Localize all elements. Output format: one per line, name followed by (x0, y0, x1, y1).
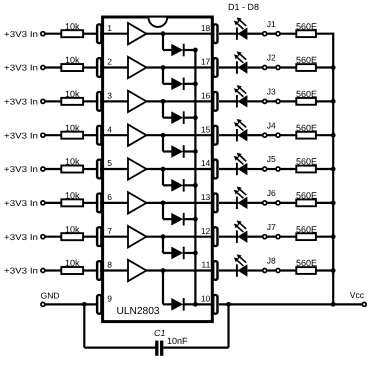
diode internal freewheel (channel 8) (171, 298, 183, 311)
junction (C1 branch) (226, 302, 231, 307)
resistor 10k (channel 5) (61, 166, 83, 173)
diode internal freewheel (channel 6) (171, 213, 183, 226)
capacitor C1 (157, 341, 162, 356)
svg-text:560E: 560E (296, 258, 317, 268)
pin 10 (COM) (212, 294, 219, 315)
junction (COM rail) (193, 251, 198, 256)
junction (Vcc rail meets Vcc net) (331, 302, 336, 307)
buffer/darlington triangle (channel 5) (128, 158, 146, 179)
pin 11 (output) (212, 260, 219, 281)
buffer/darlington triangle (channel 7) (128, 226, 146, 247)
wire (45, 303, 97, 305)
wire (163, 49, 172, 51)
wire (219, 236, 239, 238)
junction (channel 5 output) (161, 167, 166, 172)
svg-text:560E: 560E (296, 21, 317, 31)
wire (316, 269, 334, 271)
wire (219, 33, 239, 35)
svg-text:J4: J4 (267, 120, 276, 130)
junction (COM rail) (193, 149, 198, 154)
pin 16 (output) (212, 91, 219, 112)
wire (316, 168, 334, 170)
wire (163, 218, 172, 220)
pin 5 (input) (96, 159, 103, 180)
pin 6 (input) (96, 192, 103, 213)
wire (280, 269, 296, 271)
wire (162, 271, 164, 305)
wire (247, 66, 262, 68)
wire (184, 83, 196, 85)
wire (83, 168, 96, 170)
resistor 560E (channel 6) (296, 199, 316, 206)
junction (Vcc rail) (331, 133, 336, 138)
junction (COM rail) (193, 81, 198, 86)
junction (COM rail) (193, 302, 198, 307)
wire (184, 49, 196, 51)
resistor 560E (channel 4) (296, 132, 316, 139)
pin 7 (input) (96, 226, 103, 247)
jumper J6 (263, 201, 280, 205)
junction (Vcc rail) (331, 65, 336, 70)
junction (channel 8 output) (161, 268, 166, 273)
wire (280, 33, 296, 35)
svg-text:+3V3 In: +3V3 In (4, 29, 38, 39)
wire (100, 134, 128, 136)
jumper J8 (263, 269, 280, 273)
wire (83, 100, 96, 102)
pin 15 (output) (212, 125, 219, 146)
wire internal COM rail (diode cathodes to pin 10) (194, 50, 196, 304)
wire (145, 168, 212, 170)
wire (163, 117, 172, 119)
pin 1 (input) (96, 23, 103, 44)
wire (219, 66, 239, 68)
wire (184, 303, 196, 305)
wire (100, 100, 128, 102)
terminal +3V3 In (channel 2) (41, 66, 45, 70)
resistor 10k (channel 1) (61, 30, 83, 37)
terminal +3V3 In (channel 8) (41, 269, 45, 273)
wire (316, 236, 334, 238)
svg-text:J5: J5 (267, 154, 276, 164)
wire (184, 184, 196, 186)
wire (100, 202, 128, 204)
IC U1 ULN2803 body (18-pin DIP outline with notch) (103, 17, 213, 322)
svg-text:J6: J6 (267, 188, 276, 198)
wire (162, 101, 164, 117)
svg-text:+3V3 In: +3V3 In (4, 164, 38, 174)
wire (145, 66, 212, 68)
resistor 560E (channel 7) (296, 233, 316, 240)
wire (83, 66, 96, 68)
svg-text:18: 18 (201, 23, 211, 33)
wire (219, 202, 239, 204)
terminal Vcc (362, 302, 366, 306)
terminal +3V3 In (channel 4) (41, 133, 45, 137)
wire (100, 236, 128, 238)
svg-text:10nF: 10nF (167, 336, 188, 346)
wire (184, 252, 196, 254)
svg-text:J8: J8 (267, 256, 276, 266)
junction (channel 7 output) (161, 234, 166, 239)
resistor 560E (channel 5) (296, 166, 316, 173)
resistor 560E (channel 1) (296, 30, 316, 37)
wire (145, 100, 212, 102)
LED D3 (234, 85, 248, 108)
wire (163, 252, 172, 254)
wire (162, 68, 164, 84)
junction (Vcc rail) (331, 167, 336, 172)
jumper J4 (263, 133, 280, 137)
junction (Vcc rail) (331, 99, 336, 104)
wire (145, 33, 212, 35)
svg-text:560E: 560E (296, 55, 317, 65)
wire (162, 203, 164, 219)
svg-text:1: 1 (107, 23, 112, 33)
pin 9 (GND) (96, 294, 103, 315)
svg-text:D1 - D8: D1 - D8 (228, 2, 259, 12)
wire (280, 100, 296, 102)
wire (184, 150, 196, 152)
diode internal freewheel (channel 7) (171, 247, 183, 260)
wire (100, 168, 128, 170)
svg-text:14: 14 (201, 158, 211, 168)
wire (45, 269, 61, 271)
junction (COM rail) (193, 48, 198, 53)
buffer/darlington triangle (channel 2) (128, 57, 146, 78)
wire (100, 269, 128, 271)
diode internal freewheel (channel 4) (171, 145, 183, 158)
svg-text:J2: J2 (267, 53, 276, 63)
wire (280, 202, 296, 204)
wire (45, 202, 61, 204)
wire (184, 218, 196, 220)
wire (83, 236, 96, 238)
wire (100, 33, 128, 35)
wire (162, 237, 164, 253)
junction (channel 4 output) (161, 133, 166, 138)
svg-text:560E: 560E (296, 224, 317, 234)
wire (247, 168, 262, 170)
wire (83, 202, 96, 204)
wire (83, 304, 85, 347)
svg-text:7: 7 (107, 226, 112, 236)
wire (219, 100, 239, 102)
svg-text:+3V3 In: +3V3 In (4, 198, 38, 208)
junction (Vcc rail) (331, 200, 336, 205)
resistor 10k (channel 6) (61, 199, 83, 206)
wire (280, 66, 296, 68)
wire (162, 169, 164, 185)
svg-text:10k: 10k (65, 224, 80, 234)
junction (Vcc rail) (331, 268, 336, 273)
pin 2 (input) (96, 57, 103, 78)
resistor 10k (channel 8) (61, 267, 83, 274)
wire (184, 117, 196, 119)
diode internal freewheel (channel 3) (171, 111, 183, 124)
svg-text:17: 17 (201, 57, 211, 67)
jumper J5 (263, 167, 280, 171)
svg-text:13: 13 (201, 192, 211, 202)
LED D8 (234, 254, 248, 276)
pin 17 (output) (212, 57, 219, 78)
pin 12 (output) (212, 226, 219, 247)
diode internal freewheel (channel 1) (171, 44, 183, 57)
wire (163, 303, 172, 305)
buffer/darlington triangle (channel 4) (128, 124, 146, 145)
svg-text:560E: 560E (296, 123, 317, 133)
resistor 560E (channel 2) (296, 64, 316, 71)
wire Vcc rail (right) (332, 33, 334, 305)
wire (84, 347, 155, 349)
pin 4 (input) (96, 125, 103, 146)
wire (145, 134, 212, 136)
svg-text:10k: 10k (65, 123, 80, 133)
svg-text:560E: 560E (296, 89, 317, 99)
wire (83, 134, 96, 136)
svg-text:+3V3 In: +3V3 In (4, 63, 38, 73)
resistor 10k (channel 7) (61, 233, 83, 240)
wire (316, 202, 334, 204)
wire (162, 34, 164, 50)
wire (280, 236, 296, 238)
svg-text:10k: 10k (65, 191, 80, 201)
wire (219, 134, 239, 136)
svg-text:+3V3 In: +3V3 In (4, 97, 38, 107)
wire (247, 33, 262, 35)
wire (100, 66, 128, 68)
wire (316, 33, 334, 35)
svg-text:560E: 560E (296, 157, 317, 167)
wire (45, 66, 61, 68)
pin 13 (output) (212, 192, 219, 213)
wire (163, 150, 172, 152)
wire (45, 134, 61, 136)
pin 14 (output) (212, 159, 219, 180)
wire COM rail to pin 10 (194, 303, 212, 305)
pin 18 (output) (212, 23, 219, 44)
wire (145, 202, 212, 204)
diode internal freewheel (channel 5) (171, 179, 183, 192)
wire (45, 100, 61, 102)
pin 3 (input) (96, 91, 103, 112)
wire (316, 100, 334, 102)
svg-text:3: 3 (107, 91, 112, 101)
resistor 10k (channel 3) (61, 98, 83, 105)
wire (219, 168, 239, 170)
svg-text:2: 2 (107, 57, 112, 67)
svg-text:560E: 560E (296, 191, 317, 201)
svg-text:6: 6 (107, 192, 112, 202)
svg-text:+3V3 In: +3V3 In (4, 232, 38, 242)
junction (Vcc rail) (331, 234, 336, 239)
svg-text:4: 4 (107, 124, 112, 134)
svg-text:J3: J3 (267, 87, 276, 97)
junction (COM rail) (193, 217, 198, 222)
wire (163, 184, 172, 186)
wire (162, 135, 164, 151)
svg-text:12: 12 (201, 226, 211, 236)
junction (channel 2 output) (161, 65, 166, 70)
jumper J3 (263, 99, 280, 103)
svg-text:+3V3 In: +3V3 In (4, 130, 38, 140)
junction (channel 1 output) (161, 31, 166, 36)
resistor 10k (channel 4) (61, 132, 83, 139)
svg-text:10k: 10k (65, 258, 80, 268)
wire (247, 236, 262, 238)
wire (145, 269, 212, 271)
wire (83, 33, 96, 35)
svg-text:10k: 10k (65, 89, 80, 99)
LED D7 (234, 220, 248, 243)
buffer/darlington triangle (channel 6) (128, 192, 146, 213)
jumper J2 (263, 66, 280, 70)
svg-text:9: 9 (107, 294, 112, 304)
svg-text:+3V3 In: +3V3 In (4, 266, 38, 276)
junction (channel 3 output) (161, 99, 166, 104)
wire (45, 168, 61, 170)
LED D6 (234, 187, 248, 210)
jumper J7 (263, 235, 280, 239)
LED D2 (234, 51, 248, 74)
svg-text:10k: 10k (65, 21, 80, 31)
svg-text:C1: C1 (154, 328, 166, 338)
LED D4 (234, 119, 248, 142)
junction (channel 6 output) (161, 200, 166, 205)
terminal +3V3 In (channel 5) (41, 167, 45, 171)
svg-text:J1: J1 (267, 19, 276, 29)
wire (280, 168, 296, 170)
buffer/darlington triangle (channel 1) (128, 23, 146, 44)
jumper J1 (263, 32, 280, 36)
wire (316, 134, 334, 136)
buffer/darlington triangle (channel 8) (128, 260, 146, 281)
terminal GND (41, 302, 45, 306)
svg-text:10k: 10k (65, 55, 80, 65)
terminal +3V3 In (channel 1) (41, 32, 45, 36)
svg-text:15: 15 (201, 124, 211, 134)
LED D1 (234, 17, 248, 40)
wire (219, 269, 239, 271)
LED D5 (234, 153, 248, 176)
svg-text:GND: GND (41, 290, 60, 300)
svg-text:10k: 10k (65, 157, 80, 167)
wire (163, 347, 228, 349)
resistor 10k (channel 2) (61, 64, 83, 71)
resistor 560E (channel 8) (296, 267, 316, 274)
junction (COM rail) (193, 183, 198, 188)
terminal +3V3 In (channel 3) (41, 99, 45, 103)
resistor 560E (channel 3) (296, 98, 316, 105)
buffer/darlington triangle (channel 3) (128, 91, 146, 112)
junction (GND net) (82, 302, 87, 307)
svg-text:8: 8 (107, 260, 112, 270)
svg-text:J7: J7 (267, 222, 276, 232)
wire (45, 236, 61, 238)
svg-text:10: 10 (201, 294, 211, 304)
terminal +3V3 In (channel 7) (41, 235, 45, 239)
terminal +3V3 In (channel 6) (41, 201, 45, 205)
junction (COM rail) (193, 115, 198, 120)
wire (280, 134, 296, 136)
diode internal freewheel (channel 2) (171, 78, 183, 91)
wire (247, 269, 262, 271)
wire (316, 66, 334, 68)
wire (83, 269, 96, 271)
wire (163, 83, 172, 85)
wire (227, 304, 229, 347)
svg-text:Vcc: Vcc (350, 290, 365, 300)
wire (45, 33, 61, 35)
svg-text:16: 16 (201, 91, 211, 101)
wire (247, 202, 262, 204)
svg-text:11: 11 (201, 260, 210, 270)
wire (247, 100, 262, 102)
svg-text:ULN2803: ULN2803 (117, 306, 160, 317)
svg-text:5: 5 (107, 158, 112, 168)
wire pin 10 to Vcc (219, 303, 362, 305)
wire (247, 134, 262, 136)
wire (145, 236, 212, 238)
pin 8 (input) (96, 260, 103, 281)
